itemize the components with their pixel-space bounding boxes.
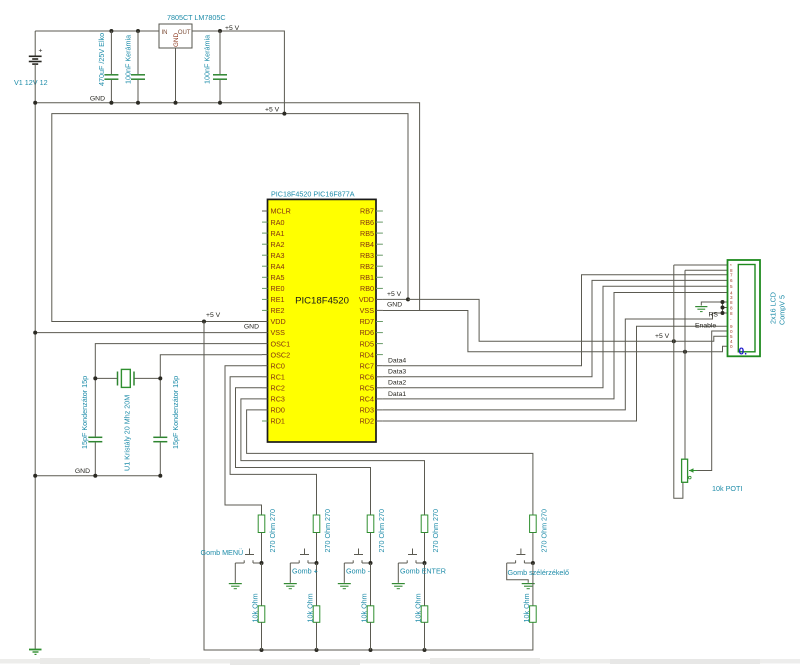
svg-text:270 Ohm 270: 270 Ohm 270: [539, 509, 548, 553]
svg-text:100nF Kerámia: 100nF Kerámia: [203, 35, 212, 84]
svg-text:RD4: RD4: [360, 350, 374, 359]
wire LCD pin2 row: [685, 269, 728, 271]
wire RC2 to button column 3: [236, 388, 371, 515]
pin RA5 left stub: [262, 276, 268, 278]
svg-text:V1 12V 12: V1 12V 12: [14, 78, 48, 87]
ground at button col5: [507, 563, 535, 589]
pushbutton S2 Gomb +: [290, 549, 316, 564]
svg-text:RB1: RB1: [360, 273, 374, 282]
node LCD tie 3 RS: [721, 311, 725, 315]
wire RD3 to LCD RS pin: [383, 313, 728, 410]
wire top rail from battery to regulator IN: [35, 30, 159, 32]
pin RB5 right stub: [376, 232, 383, 234]
wire OSC1 to crystal left: [95, 344, 262, 437]
svg-text:VDD: VDD: [359, 295, 374, 304]
node GND rail battery: [33, 474, 37, 478]
svg-text:10k Ohm: 10k Ohm: [251, 593, 260, 622]
pin VDD right stub: [376, 298, 383, 300]
pin RD4 right stub: [376, 354, 383, 356]
node bottom rail col2: [315, 648, 319, 652]
resistor R8 10k Ohm: [414, 563, 428, 650]
svg-text:+5 V: +5 V: [655, 333, 670, 340]
svg-text:RE1: RE1: [271, 295, 285, 304]
node cap3 GND: [218, 101, 222, 105]
svg-text:7: 7: [730, 273, 733, 278]
pin RB4 right stub: [376, 243, 383, 245]
svg-text:2x16 LCD: 2x16 LCD: [769, 292, 778, 324]
svg-text:RD6: RD6: [360, 328, 374, 337]
node +5V branch down to button rail: [202, 320, 206, 324]
node regulator GND: [174, 101, 178, 105]
voltage regulator U2 7805CT LM7805C: [159, 24, 192, 48]
pushbutton S4 Gomb ENTER: [398, 549, 424, 564]
svg-text:+5 V: +5 V: [225, 25, 240, 32]
svg-text:270 Ohm 270: 270 Ohm 270: [377, 509, 386, 553]
wire RC3 to button column 4: [241, 399, 425, 515]
svg-text:4: 4: [730, 339, 733, 344]
resistor R2 10k Ohm: [251, 563, 265, 650]
svg-text:+5 V: +5 V: [387, 291, 402, 298]
pin RE2 left stub: [262, 309, 268, 311]
svg-text:GND: GND: [75, 468, 90, 475]
svg-text:RD0: RD0: [271, 406, 285, 415]
wire RC1 to button column 2: [230, 377, 316, 515]
pin RA4 left stub: [262, 265, 268, 267]
pin RD7 right stub: [376, 321, 383, 323]
svg-text:RC4: RC4: [360, 395, 374, 404]
pin RD6 right stub: [376, 332, 383, 334]
svg-text:RC2: RC2: [271, 384, 285, 393]
node button junction col5: [531, 561, 535, 565]
svg-text:RC1: RC1: [271, 372, 285, 381]
svg-text:RA4: RA4: [271, 262, 285, 271]
wire LCD pin1 row: [674, 264, 728, 266]
wire RD2 to LCD Enable pin: [383, 326, 728, 421]
svg-text:IN: IN: [162, 30, 168, 36]
node bottom rail col1: [260, 648, 264, 652]
svg-text:470uF /25V Elko: 470uF /25V Elko: [97, 33, 106, 86]
wire regulator OUT to +5V corner: [192, 31, 284, 114]
node crystal left junction: [93, 376, 97, 380]
pin RC1 left stub: [262, 376, 268, 378]
pushbutton S3 Gomb -: [344, 549, 370, 564]
capacitor C5 15pF right: [153, 437, 167, 475]
node junction top cap1: [109, 29, 113, 33]
svg-text:8: 8: [730, 305, 733, 310]
svg-text:VDD: VDD: [271, 317, 286, 326]
node +5V run POTI branch: [672, 339, 676, 343]
crystal U1 20 MHz: [95, 369, 160, 387]
svg-text:RB2: RB2: [360, 262, 374, 271]
svg-text:RA1: RA1: [271, 229, 285, 238]
microcontroller U3 PIC18F4520: [268, 199, 377, 442]
wire VSS left to battery line: [35, 332, 262, 334]
svg-text:270 Ohm 270: 270 Ohm 270: [431, 509, 440, 553]
pin RA1 left stub: [262, 232, 268, 234]
pin VSS left stub: [262, 332, 268, 334]
resistor R7 270 Ohm: [421, 509, 440, 563]
ground at button col3: [338, 563, 351, 589]
pin RD2 right stub: [376, 420, 383, 422]
svg-text:RD7: RD7: [360, 317, 374, 326]
+5V rail wire and left loop to chip VDD: [52, 114, 408, 322]
wire LCD ground tie line: [722, 302, 724, 313]
pin RA2 left stub: [262, 243, 268, 245]
pushbutton S1 Gomb MENU: [235, 549, 261, 564]
wire RC5 Data2 to LCD: [383, 286, 728, 388]
svg-text:CompV 5: CompV 5: [778, 295, 787, 325]
svg-text:8: 8: [730, 300, 733, 305]
pin RB7 right stub: [376, 210, 383, 212]
svg-text:RC5: RC5: [360, 384, 374, 393]
svg-text:Data4: Data4: [388, 358, 406, 365]
pin VDD left stub: [262, 321, 268, 323]
svg-text:RA3: RA3: [271, 251, 285, 260]
svg-text:0.: 0.: [739, 347, 748, 358]
svg-text:15pF Kondenzátor 15p: 15pF Kondenzátor 15p: [80, 376, 89, 449]
node bottom rail col4: [423, 648, 427, 652]
pin RC2 left stub: [262, 387, 268, 389]
pin RE0 left stub: [262, 287, 268, 289]
svg-text:U1 Kristály 20 Mhz 20M: U1 Kristály 20 Mhz 20M: [123, 395, 132, 471]
pin RB0 right stub: [376, 287, 383, 289]
svg-text:VSS: VSS: [360, 306, 375, 315]
svg-text:Gomb szélérzékelő: Gomb szélérzékelő: [508, 568, 570, 577]
node cap2 GND: [136, 101, 140, 105]
ground at button col2: [284, 563, 297, 589]
node GND rail cap5: [158, 474, 162, 478]
wire battery negative down to GND rail and below: [34, 64, 36, 649]
svg-text:VSS: VSS: [271, 328, 286, 337]
wire RC7 Data4 to LCD: [383, 275, 728, 366]
svg-text:RD2: RD2: [360, 417, 374, 426]
resistor R4 10k Ohm: [306, 563, 320, 650]
svg-text:RC3: RC3: [271, 395, 285, 404]
svg-text:RD1: RD1: [271, 417, 285, 426]
svg-text:GND: GND: [173, 33, 180, 47]
svg-text:5: 5: [730, 284, 733, 289]
svg-text:RC0: RC0: [271, 361, 285, 370]
capacitor C1 470uF/25V Elko: [104, 31, 118, 103]
svg-text:RC6: RC6: [360, 372, 374, 381]
wire RC0 to button column 1: [225, 366, 262, 515]
node LCD tie 1: [721, 300, 725, 304]
svg-text:7805CT LM7805C: 7805CT LM7805C: [167, 13, 226, 22]
svg-text:OSC1: OSC1: [271, 339, 291, 348]
svg-text:Gomb MENÜ: Gomb MENÜ: [201, 548, 244, 557]
pin RC0 left stub: [262, 365, 268, 367]
svg-text:RB5: RB5: [360, 229, 374, 238]
svg-text:Enable: Enable: [695, 323, 716, 330]
ground at button col1: [229, 563, 242, 589]
svg-text:270 Ohm 270: 270 Ohm 270: [323, 509, 332, 553]
capacitor C2 100nF Keramia: [131, 31, 145, 103]
svg-text:RS: RS: [709, 312, 719, 319]
node button junction col3: [369, 561, 373, 565]
svg-text:RB0: RB0: [360, 284, 374, 293]
svg-text:RA0: RA0: [271, 218, 285, 227]
pin OSC1 left stub: [262, 343, 268, 345]
resistor R5 270 Ohm: [367, 509, 386, 563]
pin RD1 left stub: [262, 420, 268, 422]
svg-text:GND: GND: [244, 324, 259, 331]
wire +5V to LCD pin1 and POTI bottom: [674, 265, 683, 498]
node GND rail cap4: [93, 474, 97, 478]
GND rail wire top: [35, 103, 419, 311]
wire +5V run from VDD to LCD VCC pin: [408, 299, 728, 341]
svg-text:RB4: RB4: [360, 240, 374, 249]
svg-text:0: 0: [730, 329, 733, 334]
pin RB2 right stub: [376, 265, 383, 267]
ground at button col4: [392, 563, 405, 589]
pin RB3 right stub: [376, 254, 383, 256]
pin RC4 right stub: [376, 398, 383, 400]
svg-text:10k Ohm: 10k Ohm: [414, 593, 423, 622]
node VSS battery junction: [33, 331, 37, 335]
pin RA0 left stub: [262, 221, 268, 223]
LCD pin numbers: [730, 263, 733, 349]
pin RC3 left stub: [262, 398, 268, 400]
svg-text:Data3: Data3: [388, 369, 406, 376]
ground (earth) at battery bottom: [29, 650, 42, 655]
ground symbol at LCD: [695, 302, 727, 312]
wire OSC2 to crystal right: [160, 355, 262, 437]
wire +5V branch down to bottom rail: [204, 322, 533, 651]
resistor R9 270 Ohm: [530, 509, 549, 563]
svg-text:10k Ohm: 10k Ohm: [522, 593, 531, 622]
pin RA3 left stub: [262, 254, 268, 256]
resistor R6 10k Ohm: [360, 563, 374, 650]
resistor R10 10k Ohm: [522, 563, 536, 623]
wire RC6 Data3 to LCD: [383, 280, 728, 376]
svg-text:6: 6: [730, 278, 733, 283]
svg-text:10k Ohm: 10k Ohm: [360, 593, 369, 622]
svg-text:+5 V: +5 V: [206, 312, 221, 319]
svg-text:RB3: RB3: [360, 251, 374, 260]
svg-text:GND: GND: [387, 302, 402, 309]
pushbutton S5 Gomb szelerzekelo: [507, 549, 533, 564]
pin RD3 right stub: [376, 409, 383, 411]
resistor R3 270 Ohm: [313, 509, 332, 563]
capacitor C3 100nF Keramia: [213, 31, 227, 103]
svg-text:*: *: [730, 263, 732, 268]
pin OSC2 left stub: [262, 354, 268, 356]
svg-text:OSC2: OSC2: [271, 350, 291, 359]
svg-text:RE2: RE2: [271, 306, 285, 315]
pin VSS right stub: [376, 309, 383, 311]
pin RB1 right stub: [376, 276, 383, 278]
bottom screenshot artifact band: [0, 658, 800, 665]
pin RC5 right stub: [376, 387, 383, 389]
svg-text:RA2: RA2: [271, 240, 285, 249]
svg-text:10k POTI: 10k POTI: [712, 484, 742, 493]
node cap1 GND: [109, 101, 113, 105]
node button junction col2: [315, 561, 319, 565]
battery V1 12V: [29, 31, 43, 64]
svg-text:RA5: RA5: [271, 273, 285, 282]
node button junction col4: [423, 561, 427, 565]
svg-text:10k Ohm: 10k Ohm: [306, 593, 315, 622]
wire LCD RW pin row: [723, 307, 728, 309]
svg-text:Gomb ENTER: Gomb ENTER: [400, 567, 446, 576]
svg-text:100nF Kerámia: 100nF Kerámia: [124, 35, 133, 84]
node bottom rail col3: [369, 648, 373, 652]
svg-text:+5 V: +5 V: [265, 107, 280, 114]
wire GND to LCD pin2 and POTI top: [684, 270, 686, 459]
node +5V rail junction: [282, 112, 286, 116]
pin RD5 right stub: [376, 343, 383, 345]
svg-text:MCLR: MCLR: [271, 207, 291, 216]
pin RC7 right stub: [376, 365, 383, 367]
svg-text:270 Ohm 270: 270 Ohm 270: [268, 509, 277, 553]
svg-text:RB7: RB7: [360, 207, 374, 216]
node junction cap3 top: [218, 29, 222, 33]
node GND run POTI branch: [683, 350, 687, 354]
node LCD tie 2: [721, 306, 725, 310]
pin MCLR left stub: [262, 210, 268, 212]
svg-text:+: +: [39, 48, 43, 55]
pin RB6 right stub: [376, 221, 383, 223]
wire RD0 to button column 5: [247, 410, 533, 515]
wire RC4 Data1 to LCD: [383, 293, 728, 399]
svg-text:8: 8: [730, 311, 733, 316]
svg-text:Data1: Data1: [388, 391, 406, 398]
pin RC6 right stub: [376, 376, 383, 378]
svg-text:PIC18F4520: PIC18F4520: [295, 296, 349, 307]
svg-text:15pF Kondenzátor 15p: 15pF Kondenzátor 15p: [171, 376, 180, 449]
LCD module 2x16: [728, 260, 761, 358]
capacitor C4 15pF left: [88, 437, 102, 475]
pin RE1 left stub: [262, 298, 268, 300]
svg-text:RC7: RC7: [360, 361, 374, 370]
svg-text:RD3: RD3: [360, 406, 374, 415]
svg-text:RD5: RD5: [360, 339, 374, 348]
wire regulator GND pin down: [175, 48, 177, 103]
svg-text:0: 0: [730, 344, 733, 349]
node battery GND junction: [33, 101, 37, 105]
svg-text:RB6: RB6: [360, 218, 374, 227]
svg-text:GND: GND: [90, 96, 105, 103]
node +5V chip VDD right junction: [406, 297, 410, 301]
resistor R1 270 Ohm: [258, 509, 277, 563]
node junction top cap2: [136, 29, 140, 33]
svg-text:Gomb -: Gomb -: [346, 567, 371, 576]
svg-text:Gomb +: Gomb +: [292, 567, 318, 576]
pin RD0 left stub: [262, 409, 268, 411]
wire POTI wiper to LCD VO pin: [697, 331, 728, 471]
wire crystal GND rail: [35, 475, 160, 477]
svg-text:PIC18F4520 PIC16F877A: PIC18F4520 PIC16F877A: [271, 190, 355, 199]
node crystal right junction: [158, 376, 162, 380]
svg-text:Data2: Data2: [388, 380, 406, 387]
potentiometer R11 10k POTI: [682, 459, 697, 482]
svg-text:RE0: RE0: [271, 284, 285, 293]
wire GND run from VSS to LCD VSS pin: [383, 311, 728, 352]
node button junction col1: [260, 561, 264, 565]
